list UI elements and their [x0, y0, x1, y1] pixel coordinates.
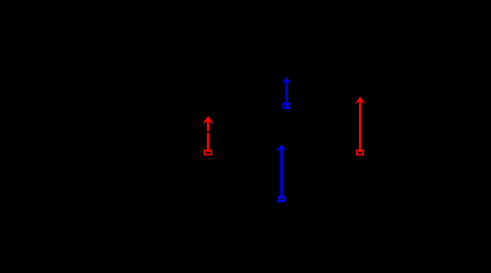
current arrow I1 (red, left, base current): [203, 116, 214, 155]
wire crossing I1 shaft: [204, 131, 213, 133]
arrowhead I1: [203, 116, 214, 124]
arrowhead I2: [282, 77, 291, 83]
terminal box I2: [283, 104, 289, 108]
terminal box I3: [278, 196, 285, 202]
terminal box I4: [357, 150, 364, 154]
terminal box I3 inner slots: [280, 198, 281, 200]
arrowhead I3: [277, 144, 286, 150]
arrowhead I4: [355, 97, 366, 104]
current arrow I2 (blue, upper middle, collector current): [282, 77, 291, 108]
shaft I1: [207, 121, 209, 153]
shaft I3: [280, 148, 282, 198]
terminal box I1: [204, 150, 211, 154]
current arrow I3 (blue, lower middle, emitter current): [277, 144, 286, 202]
shaft I4: [359, 101, 361, 152]
current arrow I4 (red, right, collector supply current): [355, 97, 366, 155]
shaft I2: [286, 81, 288, 107]
